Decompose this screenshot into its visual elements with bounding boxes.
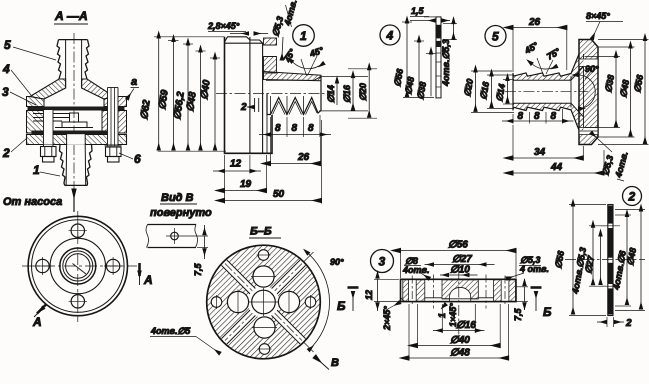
dim phi5,3 4otv leader [282,37,283,60]
flange bolt hole gaps [580,59,598,67]
dim 26 [270,137,272,166]
svg-text:8: 8 [534,111,540,122]
serrated barb bottom half (external view) [267,76,321,115]
disc bar [608,205,613,316]
tube outline bottom serration [513,107,579,130]
bolt shafts white overlays [44,110,54,145]
svg-text:А: А [32,315,42,329]
left nut and head [41,147,57,157]
svg-text:4: 4 [2,62,10,76]
svg-text:∅16: ∅16 [342,84,352,103]
dim 12 [249,155,251,174]
8 8 8 row [512,114,514,124]
dim phi59 [168,40,179,42]
dim phi56 [400,248,402,278]
svg-text:1: 1 [300,29,307,43]
svg-text:∅20: ∅20 [358,83,368,101]
svg-text:3: 3 [2,85,9,99]
label circle 2 [623,187,642,206]
slot centerlines [225,264,302,341]
dim 7,5 right [517,286,529,288]
svg-text:а: а [131,76,137,88]
svg-text:44: 44 [550,162,563,173]
body bar [401,279,517,301]
diaphragm dark band [28,107,125,111]
svg-text:А: А [143,273,153,287]
dim phi27 [600,236,602,285]
svg-text:4 отв.: 4 отв. [519,264,549,274]
dim phi40 [416,304,418,348]
right dims phi14 phi16 phi20 [319,76,368,78]
bolt hole centerlines [433,275,435,309]
centerline axis vertical [73,33,75,212]
dim phi56 left [569,204,606,206]
svg-text:26: 26 [528,17,541,28]
svg-text:90°: 90° [330,257,344,267]
svg-text:1: 1 [33,163,40,177]
26 dim top [512,25,514,70]
hub ring hatched (section, top) [264,38,277,45]
svg-text:6: 6 [134,152,141,166]
dim 7,5 [183,235,208,237]
tube top wall hatched with cone [513,54,584,80]
svg-text:∅27: ∅27 [452,254,472,265]
hatched blocks [403,280,409,301]
upper flange rings hatched [27,97,45,107]
label circle 4 [380,25,400,45]
svg-text:8: 8 [551,111,557,122]
flange circle [50,238,105,293]
svg-text:7,5: 7,5 [193,262,203,276]
plate body [436,17,441,98]
svg-text:∅56: ∅56 [448,240,468,251]
svg-text:2,8×45°: 2,8×45° [207,21,240,31]
svg-text:2: 2 [240,102,247,113]
svg-text:8×45°: 8×45° [586,11,610,21]
small holes phi5 [258,250,269,261]
centerline axis [216,93,332,95]
svg-text:19: 19 [240,179,252,190]
dim phi40 [210,57,220,59]
dim phi27 [434,264,487,266]
34 dim [582,146,584,161]
svg-text:3: 3 [379,255,386,269]
svg-text:8: 8 [275,123,281,134]
bore lines [513,79,571,81]
center axis [458,268,460,338]
valve center [70,113,79,122]
svg-text:Вид В: Вид В [161,192,194,204]
bolt hole gap in hub [264,44,277,46]
svg-text:В: В [331,357,339,369]
bore line [266,79,314,81]
90 deg arc dimension [303,252,314,263]
dim phi38 [426,53,436,55]
dim phi62 [154,36,225,38]
medium holes phi16 [253,266,274,287]
hole [171,232,179,240]
dim 50 [224,155,226,204]
right nut [105,145,122,147]
90 deg arc [579,75,596,109]
view B arrow [315,357,330,370]
svg-text:2: 2 [625,318,632,329]
svg-text:Б: Б [337,299,346,313]
dim 8 8 8 row [270,117,272,137]
section mark A right [138,263,141,276]
plate fragment with break edges [148,225,197,248]
dim phi48 [414,40,424,42]
hatched disc [207,245,321,359]
svg-text:повернуто: повернуто [150,207,212,219]
section mark A bottom left [37,304,47,314]
centerline axis [505,91,588,93]
hole centerlines [601,225,620,227]
center crosshair [22,265,137,267]
svg-text:4отв.: 4отв. [402,265,429,275]
svg-text:Б: Б [543,305,552,319]
svg-text:8: 8 [292,123,298,134]
flange outline [225,37,263,43]
svg-text:12: 12 [364,290,374,300]
svg-text:∅14: ∅14 [326,85,336,103]
svg-text:7,5: 7,5 [513,307,523,321]
outer circle stroke [207,245,321,359]
svg-text:1,5: 1,5 [411,6,425,16]
svg-text:∅40: ∅40 [450,335,470,346]
dim phi56 [403,97,434,99]
top barb tube serrated outline [57,40,61,79]
cone walls hatched [30,79,66,99]
tube bottom wall hatched with cone [513,103,584,130]
label circle 1 [293,25,315,47]
44 dim [603,150,605,176]
tube left face [512,73,514,111]
bottom barb tube serrated [60,145,66,186]
svg-text:12: 12 [230,159,242,170]
bell mouth 90deg flare [571,67,584,81]
svg-text:А —А: А —А [54,9,88,23]
svg-text:5: 5 [4,38,11,52]
svg-text:26: 26 [297,152,310,163]
svg-text:∅48: ∅48 [450,348,470,359]
svg-text:Б–Б: Б–Б [250,226,272,238]
center hole [248,286,280,318]
cavity side blocks [27,111,45,134]
svg-text:4отв.∅5,3: 4отв.∅5,3 [441,39,451,87]
svg-text:От насоса: От насоса [3,196,62,208]
centerline [565,259,645,261]
label circle 5 [485,26,506,47]
label circle 3 [371,250,394,273]
step lines [425,297,442,299]
tube top wall hatched band [264,72,322,81]
bolt holes with ticks [71,224,84,237]
hub circles [60,248,96,284]
flange body hatched [579,40,598,145]
white X slots [219,258,307,346]
svg-text:∅10: ∅10 [450,265,470,276]
svg-text:90°: 90° [585,64,599,74]
svg-text:5: 5 [492,30,499,44]
svg-text:∅16: ∅16 [456,320,476,331]
dim phi48 [196,50,206,52]
dim 4otv phi5,3 [589,225,606,227]
dim phi48 [408,304,410,361]
svg-text:34: 34 [534,147,546,158]
svg-text:4: 4 [386,29,394,43]
inner 2mm wall lines [254,98,256,112]
svg-text:4отв.∅5: 4отв.∅5 [150,326,191,336]
flow arrow up [73,189,75,212]
svg-text:8: 8 [518,111,524,122]
lower flange slab hatched [27,135,127,145]
tube outline top serration [513,54,579,76]
left dims [471,70,514,72]
svg-text:2: 2 [2,146,10,160]
dim phi48 [615,209,645,211]
outer circles [28,216,127,315]
dim phi56,2 [183,43,193,45]
dim 12 left [374,278,399,280]
dim 4otv phi6 right [615,214,631,216]
svg-text:2: 2 [628,190,636,204]
lower seat dark band [32,131,109,135]
right dims phi38 phi48 phi56 [585,55,621,57]
dim phi10 [449,274,470,276]
dim 19 [266,155,268,193]
dim phi16 [441,304,443,333]
svg-text:8: 8 [308,123,314,134]
inner plate lines left [33,113,70,115]
top tube bore [65,40,67,88]
dim 2 bottom [606,317,608,327]
flow channel through lower slab [67,134,86,145]
section marks B left and right [348,286,359,289]
svg-text:50: 50 [273,189,285,200]
